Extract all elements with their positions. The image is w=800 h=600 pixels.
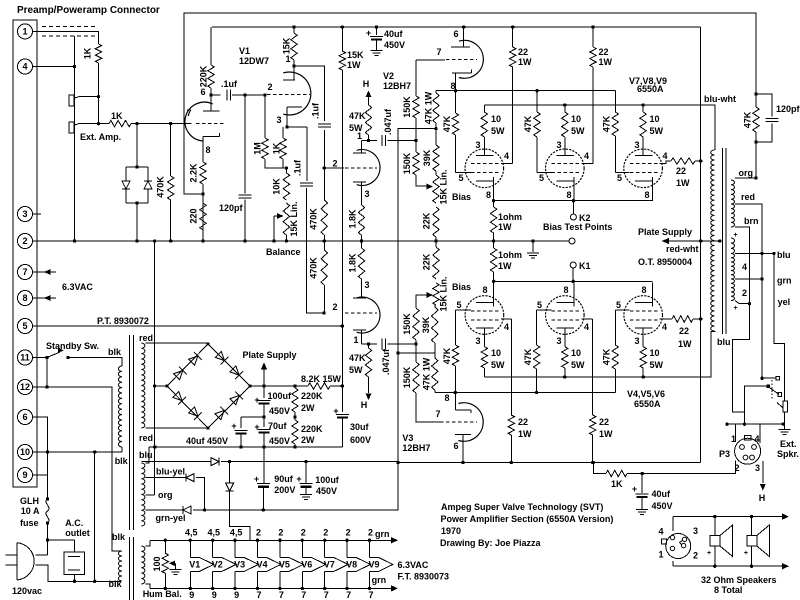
svg-text:grn: grn [777, 276, 792, 286]
resistor 47K g5 [533, 310, 551, 392]
label + OT a [733, 232, 737, 239]
svg-text:5W: 5W [491, 360, 505, 370]
svg-text:10: 10 [491, 348, 501, 358]
label + OT b [733, 305, 737, 312]
wire cathode node [287, 126, 307, 128]
cap 120pf [239, 95, 252, 243]
OT primary winding [711, 150, 715, 331]
label 470K upper [308, 208, 318, 230]
label 22 1W s3 [676, 166, 690, 188]
label 220K 2W b [301, 424, 323, 445]
svg-text:P3: P3 [719, 449, 730, 459]
svg-text:Ampeg Super Valve Technology (: Ampeg Super Valve Technology (SVT) [441, 502, 603, 512]
label 120pf fb [776, 104, 800, 114]
label yel OT [778, 297, 791, 307]
svg-text:2: 2 [256, 528, 261, 538]
label org OT [739, 168, 754, 178]
pot wiper lower [416, 292, 433, 298]
svg-text:7: 7 [346, 590, 351, 600]
resistor 10K balance top [283, 168, 289, 200]
resistor 10 5W p2 [562, 105, 568, 155]
screen bracket V4 [501, 318, 511, 320]
cathode rail upper y200.7 [492, 199, 653, 202]
wire y353 [398, 352, 435, 354]
plate supply arrow [662, 238, 721, 244]
label blu OT primary [717, 337, 731, 347]
svg-text:Bias: Bias [452, 282, 471, 292]
svg-text:10: 10 [20, 447, 30, 457]
resistor 1K (input shunt) [95, 44, 101, 125]
svg-text:12: 12 [20, 382, 30, 392]
label 15K plate [281, 37, 291, 54]
wire pin10 AC [33, 447, 123, 454]
plate V3a [353, 330, 366, 344]
diode bias grn-yel [145, 506, 204, 514]
tube V3 lower envelope [458, 403, 483, 442]
resistor 47K g1 [452, 91, 471, 173]
bridge diode D5 [172, 391, 186, 405]
svg-text:2: 2 [332, 302, 337, 312]
resistor 1ohm 1W upper [490, 201, 496, 241]
label 100 [152, 556, 162, 571]
label 40uf 450V top [384, 29, 405, 50]
resistor 47K g2 [534, 91, 552, 173]
svg-text:+: + [632, 484, 637, 494]
P3 pins [740, 445, 757, 460]
wire org tap OT [735, 177, 757, 179]
svg-text:blk: blk [108, 347, 122, 357]
label + SP2 [744, 550, 748, 557]
switch feed wire [745, 386, 769, 412]
svg-text:4: 4 [504, 151, 509, 161]
resistor 47K 5W lower [365, 344, 371, 385]
svg-text:Spkr.: Spkr. [777, 449, 799, 459]
label pins top V8 [346, 528, 351, 538]
svg-text:15K Lin.: 15K Lin. [438, 276, 448, 311]
label blu-wht [704, 94, 736, 104]
label + 70uf [254, 422, 259, 432]
label heater V9 [368, 559, 379, 569]
label heater V7 [324, 559, 335, 569]
bias wire x398 [205, 127, 438, 512]
OT secondary s5 [731, 279, 735, 301]
svg-text:V3: V3 [234, 559, 245, 569]
speaker rail top [673, 513, 789, 519]
connector pin 7 [18, 265, 33, 280]
label 47K 1W lower [421, 357, 431, 390]
svg-text:2: 2 [346, 528, 351, 538]
plate V3b [455, 435, 471, 465]
ground stub mid [527, 241, 539, 258]
tube V1 triode A envelope [185, 102, 213, 141]
labels V4 pins [456, 285, 509, 346]
svg-text:Plate Supply: Plate Supply [243, 350, 297, 360]
resistor 470K above rail [321, 168, 327, 241]
plate V2b [353, 141, 366, 154]
svg-text:1: 1 [285, 54, 290, 64]
cap 30uf 600V [336, 386, 349, 447]
svg-text:K1: K1 [579, 261, 591, 271]
svg-text:5: 5 [616, 300, 621, 310]
svg-text:30uf: 30uf [350, 422, 370, 432]
svg-text:fuse: fuse [20, 518, 39, 528]
label 10K [271, 178, 281, 195]
svg-text:15K Lin.: 15K Lin. [438, 169, 448, 204]
label 10 5W p3 [650, 114, 664, 136]
svg-text:2W: 2W [301, 435, 315, 445]
label pin 7 [186, 108, 191, 118]
cathode V3a [353, 297, 366, 299]
svg-text:3: 3 [755, 463, 760, 473]
tube V8 6550A [546, 137, 585, 201]
wire y417 [241, 416, 264, 418]
svg-text:8: 8 [205, 145, 210, 155]
svg-text:1: 1 [357, 131, 362, 141]
wire red tap OT [735, 204, 764, 378]
label 2 ohm [742, 288, 747, 298]
svg-text:4: 4 [658, 527, 663, 537]
svg-text:150K: 150K [402, 152, 412, 174]
title line 4 [440, 538, 542, 548]
heater V6 [301, 539, 326, 591]
jack Ext Amp tip [69, 95, 99, 106]
svg-text:4: 4 [22, 62, 27, 72]
svg-text:1W: 1W [498, 261, 512, 271]
label pin3 t1 [475, 140, 480, 150]
cap .1uf to lower splitter [300, 127, 326, 315]
label pin 8 [205, 145, 210, 155]
label pin1 V3a [353, 335, 358, 345]
svg-text:grn-yel: grn-yel [156, 513, 186, 523]
svg-text:Drawing By: Joe Piazza: Drawing By: Joe Piazza [440, 538, 542, 548]
resistor 1K cathode V1b [280, 127, 286, 168]
svg-text:9: 9 [22, 470, 27, 480]
label 1M [252, 142, 262, 155]
svg-text:3: 3 [556, 336, 561, 346]
bridge diode D3 [214, 351, 228, 365]
jack Ext Spkr [783, 401, 788, 412]
svg-text:5W: 5W [571, 126, 585, 136]
svg-text:70uf: 70uf [268, 421, 288, 431]
svg-text:1W: 1W [676, 178, 690, 188]
svg-text:V4,V5,V6: V4,V5,V6 [627, 389, 665, 399]
label 22 1W s5 [599, 417, 613, 439]
svg-text:7: 7 [436, 47, 441, 57]
svg-text:150K: 150K [402, 366, 412, 388]
svg-text:100uf: 100uf [268, 391, 293, 401]
label 1.8K lower [347, 253, 357, 273]
cathode V1b [285, 107, 302, 129]
svg-text:V9: V9 [368, 559, 379, 569]
svg-text:Plate Supply: Plate Supply [638, 227, 692, 237]
svg-text:1.8K: 1.8K [347, 209, 357, 229]
label 47K g6 [601, 348, 611, 365]
wire pin3 stub [33, 213, 42, 215]
svg-text:+: + [733, 232, 737, 239]
label heater V1 [189, 559, 200, 569]
B+ rail y27 [212, 25, 701, 28]
svg-text:8: 8 [563, 285, 568, 295]
label pins bottom V8 [346, 590, 351, 600]
svg-text:1W: 1W [498, 222, 512, 232]
svg-text:3: 3 [475, 140, 480, 150]
label 15K Lin. [289, 201, 299, 236]
svg-text:15K: 15K [347, 50, 364, 60]
title line 3 [441, 526, 461, 536]
bridge diamond [165, 342, 251, 429]
svg-text:+: + [254, 422, 259, 432]
cap 100uf 450V [258, 386, 271, 419]
svg-text:3: 3 [693, 526, 698, 536]
resistor 1ohm 1W lower [490, 241, 496, 281]
svg-text:22: 22 [676, 166, 686, 176]
label 10 5W p2 [571, 114, 585, 136]
svg-text:red: red [741, 192, 755, 202]
screen bracket V8 [581, 163, 593, 165]
label Bias cathode upper [0, 0, 1, 1]
cap 90uf 200V [257, 447, 270, 510]
switch row1 [760, 376, 779, 380]
wire pin1 to R 1K [33, 31, 99, 44]
svg-text:10: 10 [650, 114, 660, 124]
label pin3 t3 [634, 140, 639, 150]
tube V5 6550A [546, 283, 585, 347]
label 40uf 450V psu [0, 0, 1, 1]
svg-text:1W: 1W [518, 57, 532, 67]
svg-text:1: 1 [22, 26, 27, 36]
label 220K [198, 65, 208, 87]
pot 100 Hum Bal [162, 539, 168, 591]
svg-text:8 Total: 8 Total [714, 585, 742, 595]
svg-text:grn: grn [375, 529, 390, 539]
svg-text:Power Amplifier Section (6550: Power Amplifier Section (6550A Version) [441, 514, 614, 524]
tube V6 6550A [624, 283, 663, 347]
label + 40uf mid [231, 421, 236, 431]
svg-text:5: 5 [539, 173, 544, 183]
label pins top V6 [301, 528, 306, 538]
cap 70uf 450V [258, 417, 271, 447]
label pins bottom V1 [189, 590, 194, 600]
svg-text:47K: 47K [601, 348, 611, 365]
svg-text:40uf: 40uf [384, 29, 404, 39]
wire standby to primary1 [70, 358, 122, 367]
label grn heater top [375, 529, 390, 539]
PT core [129, 335, 133, 600]
heater V5 [278, 539, 303, 591]
cap .1uf V1b plate coupling [294, 66, 331, 170]
label V1 [239, 46, 250, 56]
label 47K 5W upper [349, 111, 366, 133]
label grn heater bottom [372, 575, 387, 585]
node wire y140 [362, 135, 418, 146]
svg-text:1W: 1W [347, 60, 361, 70]
svg-text:10: 10 [491, 114, 501, 124]
label blk 2 [115, 456, 129, 466]
svg-text:22K: 22K [421, 253, 431, 270]
wire pin9 fuse [33, 452, 50, 501]
svg-text:1M: 1M [252, 142, 262, 155]
plate V1b [283, 64, 296, 80]
resistor 2.2K cathode [200, 162, 206, 243]
svg-text:blk: blk [112, 532, 126, 542]
AC outlet [48, 540, 85, 581]
heater V2 [211, 539, 236, 591]
label + 30uf [333, 406, 338, 416]
label 47K g2 [523, 115, 533, 132]
label 150K l2 [402, 366, 412, 388]
svg-text:8: 8 [482, 285, 487, 295]
PT primary winding 2 [118, 551, 122, 581]
label 150K l1 [402, 313, 412, 335]
bridge diode D1 [173, 367, 187, 381]
label heater V6 [301, 559, 312, 569]
connector pin 6 [18, 410, 33, 425]
resistor 1M grid leak [262, 95, 288, 170]
wire bridge minus [155, 385, 167, 387]
label 47K g3 [601, 115, 611, 132]
plate V2a [451, 27, 470, 47]
label 47K g5 [523, 348, 533, 365]
svg-text:22: 22 [518, 47, 528, 57]
svg-text:V6: V6 [301, 559, 312, 569]
label 90uf 200V [274, 474, 295, 495]
connector pin 8 [18, 291, 33, 306]
svg-text:3: 3 [634, 336, 639, 346]
tube V3 upper triode envelope (mirrored) [357, 297, 380, 333]
label 6.3VAC FT [398, 560, 429, 570]
label pins top V9 [368, 528, 373, 538]
svg-text:3: 3 [276, 115, 281, 125]
svg-text:1W: 1W [678, 339, 692, 349]
connector pin 12 [18, 380, 33, 395]
wire blu tap OT [735, 252, 785, 401]
title Preamp/Poweramp Connector [17, 5, 160, 16]
label 6550A lower [634, 399, 661, 409]
label .1uf V1b [310, 102, 320, 119]
label 22 1W s4 [518, 417, 532, 439]
svg-text:+: + [366, 28, 371, 38]
svg-text:5W: 5W [650, 126, 664, 136]
resistor 1.8K upper [358, 205, 364, 243]
tube V1 triode B envelope [283, 72, 311, 115]
bridge diode D7 [214, 407, 228, 421]
label 120vac [12, 586, 42, 596]
screen bracket V5 [581, 318, 592, 320]
svg-text:10: 10 [571, 114, 581, 124]
heater H arrow lower [361, 385, 372, 410]
svg-text:100: 100 [152, 556, 162, 571]
svg-text:1.8K: 1.8K [347, 253, 357, 273]
label V7V8V9 [629, 76, 667, 86]
wire blu jog [145, 447, 149, 463]
connector P3 shell [735, 436, 761, 465]
resistor 1K (grid stopper) [99, 120, 192, 126]
svg-text:Ext.: Ext. [780, 439, 797, 449]
label 10 5W p1 [491, 114, 505, 136]
grid dashes V1a [196, 123, 226, 125]
label 15K Lin upper [438, 169, 448, 204]
svg-text:120pf: 120pf [776, 104, 800, 114]
label 470K [155, 176, 165, 198]
svg-text:4,5: 4,5 [185, 528, 198, 538]
svg-text:10: 10 [571, 348, 581, 358]
label 1K V1b [271, 142, 281, 154]
svg-text:H: H [363, 79, 370, 89]
svg-text:450V: 450V [269, 406, 290, 416]
label 1ohm 1W lower [498, 250, 522, 271]
svg-text:Standby Sw.: Standby Sw. [46, 341, 99, 351]
label 12BH7 V2 [383, 81, 411, 91]
resistor 39K lower [432, 305, 438, 353]
resistor 10 5W p6 [640, 328, 646, 377]
svg-text:V4: V4 [256, 559, 267, 569]
svg-text:12BH7: 12BH7 [402, 443, 430, 453]
label heater V8 [346, 559, 357, 569]
title line 2 [441, 514, 614, 524]
label 70uf 450V [268, 421, 290, 446]
wire pin6 AC [33, 417, 48, 452]
labels speaker conn [658, 526, 698, 561]
AC crossover wire x94.7 [94, 452, 96, 581]
label pin 3 V1b [276, 115, 281, 125]
connector pin 3 [18, 207, 33, 222]
label 40uf 450V mid [186, 436, 228, 446]
svg-text:6.3VAC: 6.3VAC [398, 560, 429, 570]
svg-text:9: 9 [234, 590, 239, 600]
speaker line y424 [725, 422, 785, 425]
cathode V2a [452, 70, 472, 91]
label pin7 V3b [435, 409, 440, 419]
labels V9 pins [617, 151, 668, 200]
OT secondary bottom lead [735, 301, 750, 304]
label blu-yel [156, 467, 185, 477]
svg-text:3: 3 [364, 189, 369, 199]
label pin 2 V1b [267, 82, 272, 92]
resistor 22 1W screen1 [501, 27, 516, 164]
svg-text:22: 22 [679, 326, 689, 336]
svg-text:450V: 450V [316, 486, 337, 496]
resistor 15K 1W [339, 27, 345, 386]
labels V8 pins [539, 151, 589, 200]
OT secondary s2 [731, 204, 735, 227]
svg-text:22: 22 [518, 417, 528, 427]
svg-text:450V: 450V [384, 40, 405, 50]
resistor 47K g3 [612, 91, 630, 173]
svg-text:2: 2 [22, 236, 27, 246]
svg-text:5W: 5W [349, 365, 363, 375]
connector pin 10 [18, 445, 33, 460]
svg-text:47K 1W: 47K 1W [423, 91, 433, 124]
label pins top V7 [323, 528, 328, 538]
OT secondary s3 [731, 238, 735, 254]
wire org tap [145, 494, 154, 496]
feedback resistor 47K [753, 92, 759, 179]
label pin8 V2a [450, 81, 455, 91]
label pins top V1 [185, 528, 198, 538]
svg-text:Bias: Bias [452, 192, 471, 202]
label + 40uf top [366, 28, 371, 38]
heater H arrow upper [363, 79, 372, 105]
label P3 [719, 449, 730, 459]
label 22 1W s2 [599, 47, 613, 67]
svg-text:.1uf: .1uf [292, 159, 302, 176]
label 1K grid stopper [111, 111, 123, 121]
wire P3 pin4 [759, 424, 761, 443]
label 47K 1W upper [423, 91, 433, 124]
svg-text:4: 4 [662, 322, 667, 332]
connector J1 box [13, 20, 37, 487]
label 15K Lin lower [438, 276, 448, 311]
